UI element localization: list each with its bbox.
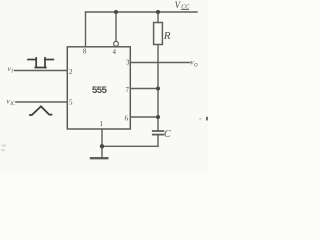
node dot pin6/column (156, 115, 160, 119)
negative pulse symbol at vI (28, 58, 53, 68)
scan artifacts (1, 117, 208, 152)
svg-text:1: 1 (100, 120, 104, 128)
svg-text:O: O (194, 64, 198, 69)
IC U1 555 timer body (67, 47, 130, 129)
ground (101, 146, 103, 156)
wire VCC top rail (86, 11, 198, 13)
svg-text:5: 5 (69, 99, 73, 107)
resistor R (154, 23, 163, 45)
capacitor C plates (153, 130, 164, 132)
wire input vI to pin 2 (15, 70, 68, 72)
svg-text:I: I (10, 70, 13, 75)
node dot pin4/VCC (114, 10, 118, 14)
wire pin 8 to VCC rail (85, 12, 87, 47)
node dot pin1/ground (100, 144, 104, 148)
wire VCC rail to resistor R (157, 12, 159, 23)
wire pin 3 to output vO (130, 62, 190, 64)
wire pin 6 to column (130, 116, 158, 118)
wire capacitor bottom to rail (157, 135, 159, 147)
svg-text:IC: IC (9, 102, 16, 107)
svg-text:R: R (163, 30, 171, 42)
triangle pulse symbol at vIC (30, 106, 52, 115)
wire input vIC to pin 5 (16, 101, 67, 103)
svg-text:7: 7 (126, 86, 130, 94)
svg-text:6: 6 (125, 115, 129, 123)
svg-text:3: 3 (126, 58, 130, 66)
wire bottom rail pin1 to capacitor (102, 145, 158, 147)
wire pin 1 down (101, 129, 103, 146)
node dot pin7/column (156, 87, 160, 91)
wire pin 7 to column (130, 88, 158, 90)
reset bubble on pin 4 (114, 41, 119, 46)
wire resistor bottom down column (157, 45, 159, 132)
svg-text:555: 555 (92, 85, 108, 96)
svg-text:8: 8 (83, 48, 87, 56)
node dot resistor/VCC (156, 10, 160, 14)
svg-text:2: 2 (69, 68, 73, 76)
wire pin 4 to VCC rail (115, 12, 117, 41)
svg-text:4: 4 (113, 48, 117, 56)
svg-text:C: C (164, 129, 171, 140)
